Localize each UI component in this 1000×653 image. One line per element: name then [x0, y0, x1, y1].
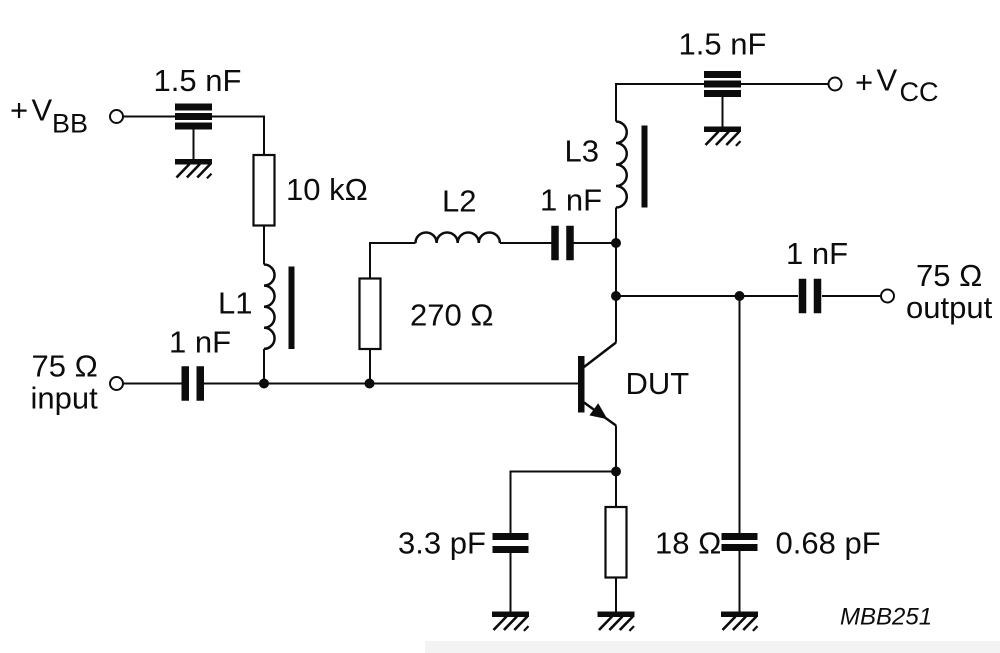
wire input terminal to capacitor	[123, 383, 182, 385]
ground (0.68 pF)	[721, 612, 758, 631]
node D (output branch)	[611, 291, 621, 301]
svg-text:DUT: DUT	[626, 366, 690, 401]
capacitor 1 nF (input)	[182, 366, 205, 401]
ground (3.3 pF)	[492, 612, 529, 631]
label +VBB	[10, 93, 88, 139]
svg-text:75 Ω: 75 Ω	[916, 258, 982, 293]
wire resistor to L1	[263, 226, 265, 265]
label 75 Ohm input	[31, 349, 99, 416]
terminal +VBB	[110, 110, 123, 123]
wire node B to 270 resistor	[369, 349, 371, 384]
wire emitter	[615, 426, 617, 508]
svg-text:input: input	[31, 381, 99, 416]
svg-text:1 nF: 1 nF	[540, 183, 602, 218]
svg-text:L2: L2	[442, 184, 476, 219]
inductor L3	[616, 122, 627, 208]
ground (VCC decoupling)	[704, 127, 741, 146]
transistor DUT	[578, 343, 616, 426]
node B	[365, 379, 375, 389]
wire feedthrough to ground	[722, 97, 724, 127]
capacitor 1 nF (interstage)	[551, 226, 574, 261]
wire 270 resistor to L2	[370, 243, 416, 279]
resistor 10 kOhm	[254, 155, 275, 226]
svg-text:75 Ω: 75 Ω	[32, 349, 98, 384]
terminal output	[881, 290, 894, 303]
label 75 Ohm output	[906, 258, 993, 325]
svg-text:1.5 nF: 1.5 nF	[154, 63, 242, 98]
resistor 270 Ohm	[360, 279, 381, 350]
capacitor 3.3 pF	[493, 533, 529, 553]
feedthrough capacitor 1.5 nF (VCC)	[704, 71, 741, 97]
faint page band	[425, 641, 1000, 653]
svg-text:1.5 nF: 1.5 nF	[679, 27, 767, 62]
L1 core bar	[289, 267, 295, 350]
svg-text:L3: L3	[565, 134, 599, 169]
node A	[259, 379, 269, 389]
wire collector line	[615, 208, 617, 343]
capacitor 1 nF (output)	[799, 279, 822, 314]
resistor 18 Ohm (emitter)	[606, 507, 627, 578]
wire 3.3 pF to ground	[510, 553, 512, 612]
svg-text:L1: L1	[218, 286, 252, 321]
svg-text:V: V	[877, 63, 898, 98]
wire capacitor to output terminal	[822, 295, 881, 297]
wire L1 to node A	[263, 349, 265, 384]
wire node E to 0.68 pF	[739, 296, 741, 533]
wire capacitor to base	[204, 383, 578, 385]
wire VCC rail	[616, 84, 829, 122]
wire capacitor to node C	[573, 242, 616, 244]
wire output line	[616, 295, 798, 297]
L3 core bar	[642, 126, 648, 208]
svg-text:output: output	[906, 290, 993, 325]
wire VBB rail	[123, 117, 264, 156]
node E	[735, 291, 745, 301]
node C	[611, 238, 621, 248]
capacitor 0.68 pF	[722, 533, 758, 551]
inductor L2	[416, 232, 500, 243]
wire feedthrough to ground	[193, 130, 195, 160]
label +VCC	[855, 63, 939, 107]
ground (VBB decoupling)	[175, 159, 212, 178]
svg-text:+: +	[855, 65, 873, 100]
node F (emitter)	[611, 467, 621, 477]
svg-text:BB: BB	[52, 109, 88, 139]
svg-text:18 Ω: 18 Ω	[655, 526, 721, 561]
svg-text:1 nF: 1 nF	[786, 236, 848, 271]
feedthrough capacitor 1.5 nF (VBB)	[175, 104, 212, 130]
svg-text:V: V	[32, 93, 53, 128]
wire emitter branch to 3.3 pF	[511, 472, 617, 534]
wire 0.68 pF to ground	[739, 551, 741, 612]
svg-text:CC: CC	[900, 77, 939, 107]
svg-text:10 kΩ: 10 kΩ	[286, 172, 368, 207]
terminal input	[110, 377, 123, 390]
svg-text:+: +	[10, 93, 28, 128]
svg-text:0.68 pF: 0.68 pF	[776, 526, 881, 561]
inductor L1	[264, 265, 275, 349]
wire L2 to capacitor	[500, 242, 552, 244]
terminal +VCC	[829, 78, 842, 91]
svg-text:270 Ω: 270 Ω	[410, 298, 494, 333]
svg-text:3.3 pF: 3.3 pF	[398, 526, 486, 561]
wire emitter resistor to ground	[615, 578, 617, 612]
svg-text:MBB251: MBB251	[840, 604, 932, 631]
ground (emitter)	[598, 612, 635, 631]
svg-text:1 nF: 1 nF	[169, 325, 231, 360]
